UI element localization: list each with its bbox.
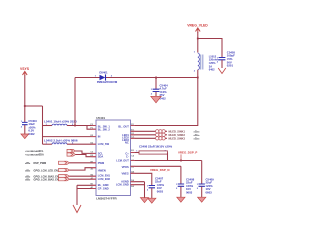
wire vertical SW node to diode line xyxy=(74,78,76,126)
svg-text:LCM_EN2: LCM_EN2 xyxy=(98,177,111,181)
node junction P net xyxy=(180,160,182,162)
svg-text:LCM_GND: LCM_GND xyxy=(116,182,129,186)
wire branch to C5405 xyxy=(198,39,222,58)
node junction at x75 on SW row xyxy=(74,125,76,127)
svg-text:MLED_SINK2: MLED_SINK2 xyxy=(169,133,186,137)
power arrow VSYS xyxy=(23,72,28,77)
ground under chip (open arrow) xyxy=(73,205,81,213)
wire branch vertical to inductors xyxy=(42,106,44,144)
port GPIO_LCM_LED_EN xyxy=(25,168,96,173)
wire VNEG row xyxy=(131,173,152,185)
svg-text:HWEN: HWEN xyxy=(98,168,106,172)
wire LCM_OUT row xyxy=(131,160,202,162)
svg-text:VREG_VLED: VREG_VLED xyxy=(187,24,208,28)
power arrow VREG_VLED xyxy=(196,28,201,33)
svg-text:VREG_DSP_P: VREG_DSP_P xyxy=(178,151,197,155)
svg-text:VSYS: VSYS xyxy=(20,67,30,71)
svg-text:C5406 22uF/16/10V ±20%: C5406 22uF/16/10V ±20% xyxy=(139,144,173,148)
port SDA xyxy=(25,153,96,157)
wire VSYS vertical xyxy=(24,76,26,123)
wire BL_GND / CP_GND xyxy=(77,185,96,205)
svg-text:0201: 0201 xyxy=(227,64,234,68)
IC pin designators right xyxy=(131,124,135,188)
svg-text:BL_SW_2: BL_SW_2 xyxy=(98,128,111,132)
svg-text:IN: IN xyxy=(98,135,101,139)
svg-text:SDA: SDA xyxy=(98,155,104,159)
svg-text:«IB»: «IB» xyxy=(25,169,31,172)
wire fork to BL_SW pins xyxy=(87,126,96,130)
wire riser C5408 xyxy=(131,166,181,183)
IC U5401 body xyxy=(96,116,131,201)
capacitor C5405 xyxy=(217,50,236,68)
capacitor C5408 xyxy=(176,177,195,197)
port DSP_PWM xyxy=(25,161,96,165)
svg-text:«1b»: «1b» xyxy=(194,130,200,134)
svg-text:«1b»: «1b» xyxy=(194,133,200,137)
svg-text:BL_OUT: BL_OUT xyxy=(118,124,129,128)
port SCL xyxy=(25,149,96,153)
svg-text:L5401 10uH ±20% 2520: L5401 10uH ±20% 2520 xyxy=(44,119,77,123)
svg-text:LCM_OUT: LCM_OUT xyxy=(116,159,129,163)
node junction VSYS branch xyxy=(24,105,26,107)
ground under C5405 (open arrow) xyxy=(218,68,226,74)
ground under C5407 xyxy=(148,198,156,203)
ground under C5404 xyxy=(151,96,161,103)
svg-text:DSP_PWM: DSP_PWM xyxy=(34,162,47,165)
inductor L5402 xyxy=(43,143,97,145)
capacitor C5406 (series box) xyxy=(131,151,168,161)
inductor L5401 xyxy=(43,124,88,126)
svg-text:VREG_DSP_N: VREG_DSP_N xyxy=(150,168,169,172)
svg-text:PMEG2F040VM: PMEG2F040VM xyxy=(97,80,118,84)
LED sink row 2 xyxy=(131,133,200,137)
node junction VREG branch xyxy=(197,38,199,40)
svg-text:GPIO_LCM_LED_EN: GPIO_LCM_LED_EN xyxy=(34,169,59,172)
capacitor C5403 xyxy=(21,119,37,136)
ground under C5409 xyxy=(198,197,206,202)
wire VREG_VLED vertical xyxy=(197,32,199,53)
ground AGND xyxy=(140,198,148,203)
pin stubs right of IC xyxy=(131,126,136,185)
pin stubs left of IC xyxy=(92,126,97,189)
svg-text:0603: 0603 xyxy=(186,191,193,195)
node junction cap C5404 tap xyxy=(155,77,157,79)
svg-text:U5401: U5401 xyxy=(96,116,105,120)
IC U5401 left pin names xyxy=(98,124,111,190)
wire VSYS branch horizontal xyxy=(25,105,43,107)
wire BL_OUT riser xyxy=(131,70,198,126)
svg-text:VPOS: VPOS xyxy=(122,165,129,169)
svg-text:MLED_SINK3: MLED_SINK3 xyxy=(169,136,186,140)
LED sink row 1 xyxy=(131,129,200,133)
svg-text:VNEG: VNEG xyxy=(121,171,128,175)
ground under C5403 xyxy=(21,134,29,139)
wire riser C5409 xyxy=(201,161,203,184)
port GPIO_LCM_BIAS_EN1 xyxy=(25,178,96,182)
svg-text:PWM: PWM xyxy=(98,161,104,165)
svg-text:MLED_SINK1: MLED_SINK1 xyxy=(169,129,186,133)
svg-text:NC: NC xyxy=(125,141,129,145)
svg-text:«1b»: «1b» xyxy=(194,137,200,141)
diode D5401 xyxy=(95,70,118,84)
IC U5401 right pin names xyxy=(116,124,129,186)
ferrite bead L5012 xyxy=(194,52,220,73)
svg-text:«IB»: «IB» xyxy=(25,162,31,165)
svg-text:LM36274YFFR: LM36274YFFR xyxy=(96,196,117,200)
svg-text:SDA: SDA xyxy=(39,154,44,157)
node junction at diode line right xyxy=(197,77,199,79)
svg-text:0603: 0603 xyxy=(157,190,164,194)
svg-text:0603: 0603 xyxy=(206,191,213,195)
capacitor C5407 xyxy=(147,176,165,198)
IC pin designators left xyxy=(91,124,95,189)
capacitor C5404 xyxy=(151,78,168,101)
svg-text:GPIO_LCM_BIAS_EN1: GPIO_LCM_BIAS_EN1 xyxy=(34,178,61,181)
ground under C5408 xyxy=(177,197,185,202)
wire IN row xyxy=(43,136,97,138)
svg-text:0402: 0402 xyxy=(28,132,35,136)
svg-text:0402: 0402 xyxy=(209,68,215,72)
LED sink row 3 xyxy=(131,136,200,140)
svg-text:C-: C- xyxy=(126,155,129,159)
wire AGND / LCM_GND xyxy=(131,182,145,198)
svg-text:D5401: D5401 xyxy=(99,70,108,74)
svg-text:CP_GND: CP_GND xyxy=(98,186,109,190)
svg-text:LCM_SW: LCM_SW xyxy=(98,142,110,146)
wire boost top line xyxy=(75,77,198,79)
port GPIO_LCM_BIAS_EN0 xyxy=(25,175,96,179)
capacitor C5409 xyxy=(197,177,214,197)
svg-text:«IB»: «IB» xyxy=(25,178,31,181)
